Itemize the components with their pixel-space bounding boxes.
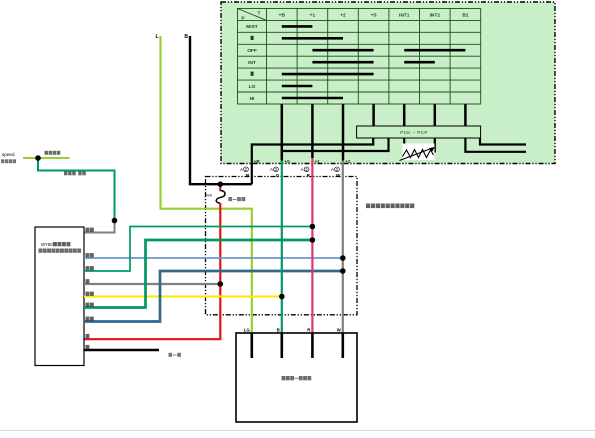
wire controller thin blue to +2 <box>84 257 343 259</box>
junction node speed <box>35 155 41 161</box>
resistor (variable, hand-drawn) <box>400 138 435 161</box>
wire controller yellow to +S <box>84 295 282 297</box>
junction node thin blue/+2 <box>340 255 346 261</box>
bar row2 +B..+2 <box>282 37 343 40</box>
ground label (earth) <box>169 353 181 357</box>
wire +B column drop <box>281 104 284 161</box>
svg-text:B: B <box>184 34 188 40</box>
svg-text:LG: LG <box>244 328 251 333</box>
wiper motor box <box>236 333 357 422</box>
bar OFF +1..+S <box>312 49 373 52</box>
svg-text:+2: +2 <box>340 13 346 19</box>
svg-text:INT2: INT2 <box>430 13 441 19</box>
svg-text:MIST: MIST <box>246 24 258 30</box>
wire L (light green) to wiper motor LG <box>161 36 252 333</box>
wire +S column to relay <box>372 104 375 127</box>
wire controller thick green to +1 <box>84 240 312 308</box>
wire INT2 column to relay <box>434 104 437 127</box>
wire controller black ground <box>84 349 159 351</box>
wire relay right stub lower <box>465 138 526 152</box>
wire +1 (pink) to motor <box>311 158 313 333</box>
svg-text:+B: +B <box>254 159 261 165</box>
svg-text:INT: INT <box>248 60 256 66</box>
bar MIST +B..+1 <box>282 25 313 28</box>
bar INT +1..+S <box>312 61 373 64</box>
junction node thin green/+1 <box>310 224 316 230</box>
wire controller thin green to +1 <box>84 227 312 272</box>
connector labels A(2) <box>240 167 339 172</box>
fuse 20A <box>205 187 245 204</box>
junction node thick green/+1 <box>310 237 316 243</box>
junction node white/red <box>218 281 224 287</box>
svg-text:A: A <box>301 167 304 172</box>
motor pin labels <box>244 328 342 333</box>
speed signal wire (light green) <box>23 157 70 159</box>
wire colour letters B G R W <box>246 173 341 178</box>
junction node yellow/+S <box>279 294 285 300</box>
wire fused +B (red) to controller <box>84 203 220 339</box>
wire B (black) <box>190 36 252 184</box>
svg-text:+B: +B <box>279 13 286 19</box>
svg-text:HI: HI <box>250 96 255 102</box>
navi label (kana) <box>1 159 16 163</box>
svg-text:+S: +S <box>371 13 378 19</box>
svg-text:INT1: INT1 <box>399 13 410 19</box>
svg-text:T: T <box>258 11 261 17</box>
svg-text:A: A <box>270 167 273 172</box>
wire relay stub to +B pin <box>252 138 373 184</box>
svg-text:B: B <box>277 328 280 333</box>
wire +S (teal green) to motor <box>281 161 283 334</box>
wiper controller box WY50 <box>35 227 84 366</box>
wire controller white to fused +B <box>84 283 220 285</box>
junction node navi/grey <box>112 218 118 224</box>
wire colour label green/yellow <box>64 171 86 175</box>
wire navi (green) <box>38 158 115 221</box>
wire +2 (grey) to motor <box>342 161 344 334</box>
svg-text:A: A <box>240 167 243 172</box>
svg-text:+1: +1 <box>315 159 321 165</box>
bar LO +B..+1 <box>282 85 313 88</box>
motor pin stubs <box>252 333 343 358</box>
switch assembly enclosure (green dash-dot box) <box>221 2 555 164</box>
window edge line at bottom <box>0 430 595 432</box>
intermittent relay box PCK-PCP <box>357 126 481 138</box>
bar row5 +B..+S <box>282 73 374 76</box>
svg-text:A: A <box>331 167 334 172</box>
wire B1 column to relay <box>464 104 467 127</box>
steering column dash-dot box <box>206 177 358 315</box>
svg-text:+2: +2 <box>345 159 351 165</box>
wire controller thick blue to +2 <box>84 271 343 322</box>
svg-text:L: L <box>155 34 158 40</box>
table row labels <box>246 24 258 102</box>
svg-text:speed: speed <box>2 152 15 157</box>
contact bars <box>282 26 466 98</box>
svg-text:+1: +1 <box>310 13 316 19</box>
wire +2 column drop <box>342 104 345 161</box>
svg-text:20A: 20A <box>205 193 212 198</box>
svg-text:+S: +S <box>284 159 291 165</box>
column drop wires from table <box>282 104 466 161</box>
wire colour label near speed node <box>45 151 61 155</box>
pin labels +B +S +1 +2 at enclosure border <box>254 159 351 165</box>
svg-text:OFF: OFF <box>247 48 257 54</box>
bar INT INT1..INT2 <box>404 61 435 64</box>
junction node thick blue/+2 <box>340 268 346 274</box>
bar OFF INT1..B1 <box>404 49 465 52</box>
table header labels <box>241 11 468 22</box>
svg-text:B1: B1 <box>462 13 468 19</box>
wire relay stub to +B column <box>282 138 389 151</box>
wire relay right stub upper <box>480 138 526 145</box>
svg-text:LO: LO <box>249 84 256 90</box>
steering column label (katakana) <box>366 204 414 209</box>
svg-text:WY50: WY50 <box>41 242 53 247</box>
wire INT1 column to relay <box>403 104 406 127</box>
controller pin labels <box>86 228 94 350</box>
svg-text:PCK − PCP: PCK − PCP <box>400 130 428 135</box>
bar HI +B..+2 <box>282 97 343 100</box>
wire +1 column drop <box>311 104 314 158</box>
junction node fuse tap <box>218 181 224 187</box>
switch contact table grid <box>238 9 481 105</box>
wire navi tail (grey) to controller <box>84 221 115 233</box>
